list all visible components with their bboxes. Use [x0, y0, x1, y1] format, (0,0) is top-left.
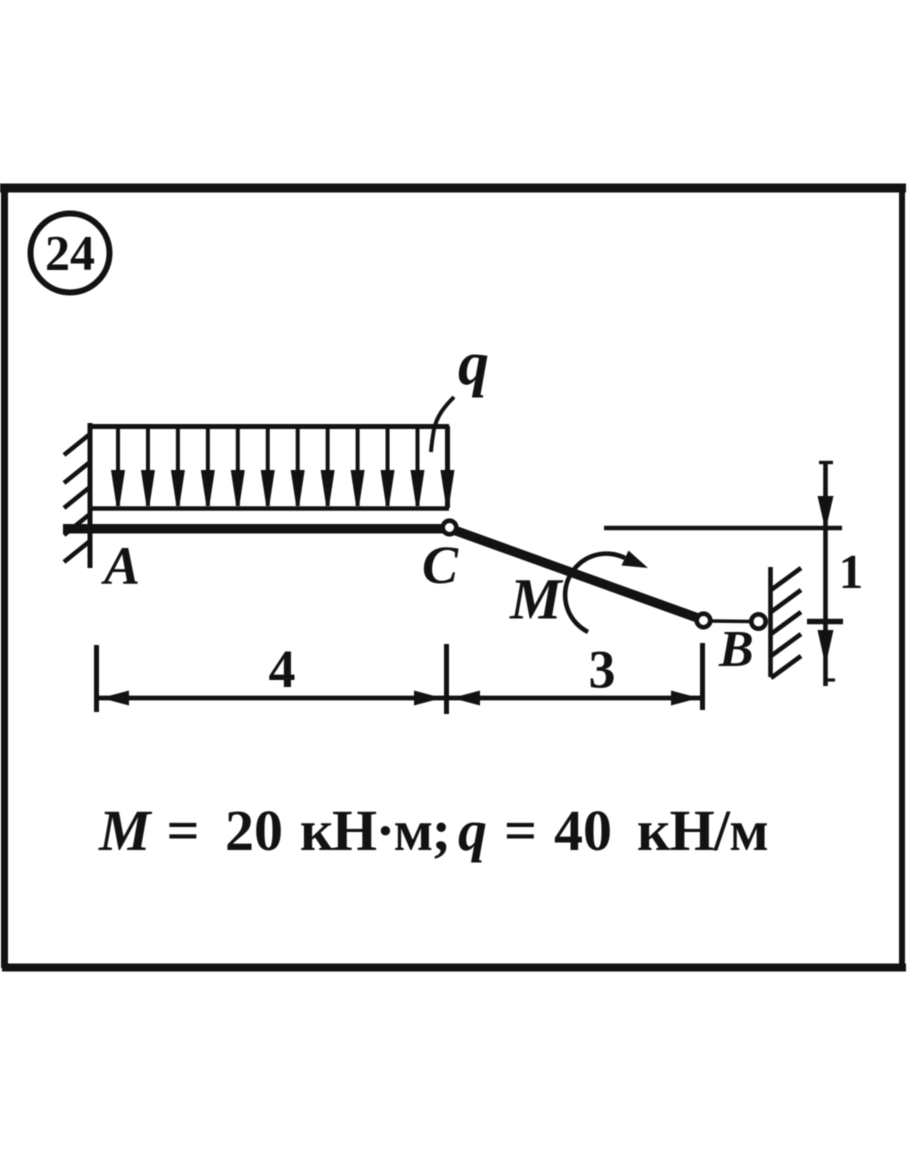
load arrow 11: [411, 427, 425, 506]
extension line below B: [700, 643, 705, 710]
moment M arc arrow: [565, 551, 648, 633]
dim arrow left at A: [101, 691, 129, 706]
load arrow 5: [231, 427, 245, 506]
svg-text:C: C: [422, 535, 459, 595]
beam AC: [63, 524, 449, 534]
hatch stroke B4: [771, 634, 801, 656]
extension line below C: [444, 644, 449, 714]
svg-text:4: 4: [269, 639, 296, 699]
svg-text:M: M: [509, 567, 564, 632]
inclined member CB: [451, 529, 702, 620]
hatch stroke A2: [64, 462, 90, 483]
link bar B to wall pin: [710, 619, 752, 623]
support wall at B: [768, 567, 773, 677]
dimension line 4 and 3: [99, 696, 700, 701]
extension line below A: [94, 645, 99, 712]
hatch stroke B1: [771, 568, 801, 590]
fixed support wall at A: [88, 423, 93, 568]
load arrow 8: [321, 427, 335, 506]
dimension line 1 (vertical): [807, 461, 843, 686]
leader line for q: [431, 397, 454, 452]
hatch stroke A3: [64, 487, 90, 508]
dim arrow left of segment 3: [452, 691, 480, 706]
load arrow 3: [171, 427, 185, 506]
svg-text:B: B: [718, 621, 754, 678]
pin joint C: [443, 521, 457, 535]
hatch stroke B5: [771, 656, 801, 678]
svg-text:A: A: [101, 536, 140, 596]
reference level line from C: [604, 526, 842, 531]
load arrow 1: [111, 427, 125, 506]
load arrow 12: [440, 470, 454, 504]
load arrow 7: [291, 427, 305, 506]
hatch stroke B2: [771, 590, 801, 612]
pin joint B: [697, 614, 711, 628]
dim arrow right toward C: [414, 691, 442, 706]
load arrow 2: [141, 427, 155, 506]
svg-text:1: 1: [839, 544, 864, 599]
svg-text:24: 24: [45, 225, 95, 281]
hatch stroke A1: [64, 434, 90, 455]
load arrow 9: [351, 427, 365, 506]
dim arrow right at B: [671, 691, 699, 706]
load arrow 10: [381, 427, 395, 506]
hatch stroke A4: [64, 514, 90, 535]
distributed load q outline: [88, 426, 449, 509]
wall pin B2: [751, 614, 765, 628]
load arrow 4: [201, 427, 215, 506]
svg-text:M=20кН·м;q=40кН/м: M=20кН·м;q=40кН/м: [98, 798, 768, 863]
hatch stroke B3: [771, 612, 801, 634]
svg-text:3: 3: [589, 640, 616, 700]
problem number badge circle 24: [31, 214, 110, 293]
frame border: [0, 188, 906, 968]
hatch stroke A5: [64, 541, 90, 562]
load arrow 6: [261, 427, 275, 506]
svg-text:q: q: [458, 330, 489, 398]
